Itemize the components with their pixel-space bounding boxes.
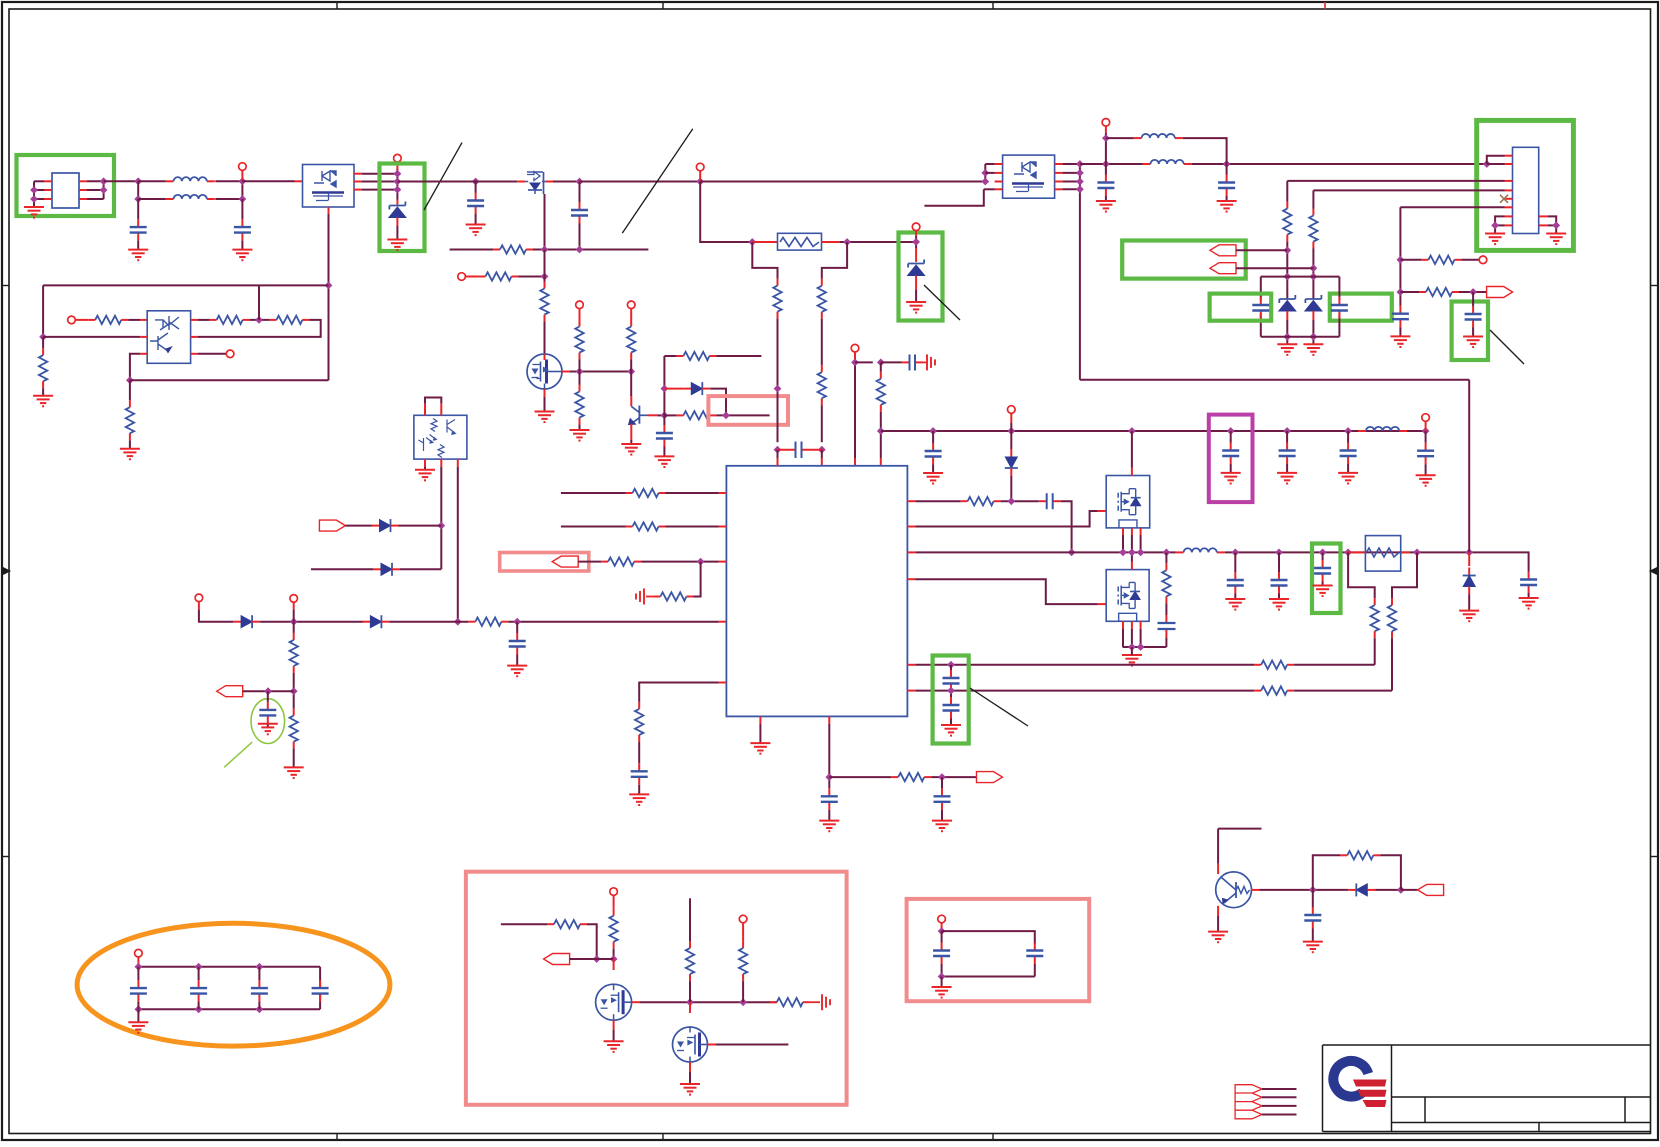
lead [1286,311,1288,320]
resistor R3 [269,316,309,324]
junction [135,963,143,971]
junction [722,412,730,420]
transistor Q10 (MOSFET) [673,1027,708,1062]
wire [1230,431,1232,443]
highlight box (pink) cap pair [907,899,1090,1001]
wire [1262,1114,1297,1116]
lead [545,181,553,183]
lead [759,716,761,724]
wire [915,690,1254,692]
resistor R7 [575,320,583,360]
wire [1287,180,1504,182]
capacitor C28 [1252,297,1269,319]
wire [1487,156,1505,164]
junction [851,359,859,367]
junction [1076,185,1084,193]
power pin [1008,406,1016,414]
capacitor C37 [1026,943,1043,965]
wire [663,447,665,457]
capacitor C36 [933,943,950,965]
wire [1548,216,1557,233]
junction [195,1005,203,1013]
wire [544,194,546,250]
border tick top [662,2,664,9]
lead [1105,126,1107,133]
wire [87,180,104,182]
wire [1034,964,1036,977]
lead [1123,621,1141,629]
capacitor C17 [934,788,951,810]
wire [664,414,676,416]
ground [387,240,407,251]
wire [1528,593,1530,598]
lead [630,308,632,319]
border tick right [1651,856,1659,858]
lead [646,596,653,598]
junction [593,955,601,963]
wire [260,621,363,623]
capacitor C14 [259,702,276,724]
power pin [576,301,584,309]
wire [855,361,873,363]
resistor R33 [1254,661,1294,669]
wire [663,356,665,426]
junction [134,195,142,203]
resistor R15 [773,279,781,319]
inductor L2 [166,195,215,199]
wire [854,360,856,458]
ground [284,767,304,778]
wire [1217,829,1219,864]
lead [191,353,198,355]
wire [396,196,398,200]
zener diode D11 [1305,295,1322,311]
lead [293,602,295,610]
highlight box (green) regulator [1477,120,1574,250]
power pin [135,949,143,957]
resistor R30 (boxed) [1365,536,1400,572]
junction [1310,333,1318,341]
wire [700,182,752,243]
lead [719,492,727,494]
lead [465,276,478,278]
junction [938,927,946,935]
capacitor C27 [1218,175,1235,197]
lead [907,500,915,502]
wire [1425,431,1427,443]
callout line [924,285,960,320]
wire [198,320,321,337]
wire [1400,206,1504,208]
ground [750,743,770,754]
border arrow left [2,567,10,575]
highlight box (green) zener 2 [899,233,943,321]
capacitor C13 [509,633,526,655]
junction [256,963,264,971]
ground [1122,655,1142,666]
wire [1261,276,1340,278]
wire [128,319,140,321]
lead [752,241,777,243]
junction [1137,549,1145,557]
wire [560,492,562,494]
wire [700,181,985,183]
junction [843,238,851,246]
highlight ellipse (orange) [77,923,390,1046]
ground [1277,473,1297,484]
wire [1225,552,1529,571]
resistor R34 [1254,686,1294,694]
junction [239,195,247,203]
diode D7 [233,615,260,628]
wire [1192,163,1487,165]
lead [396,162,398,170]
wire [742,981,744,1002]
resistor R41 [770,998,810,1006]
wire [130,354,140,380]
wire [293,749,295,768]
highlight box (magenta) [1209,415,1253,503]
border tick top (red) [1324,2,1326,9]
wire [1472,292,1474,306]
wire [1312,890,1314,907]
ground [604,1041,624,1052]
highlight box (green) zener [380,164,425,252]
junction [576,178,584,186]
junction [1319,549,1327,557]
junction [661,412,669,420]
signal pin [1479,256,1487,264]
junction [696,178,704,186]
wire [821,405,823,442]
wire [138,180,165,182]
wire [613,949,615,959]
resistor R24 [601,557,641,565]
junction [1344,427,1352,435]
wire [1165,552,1167,563]
capacitor C30 [1392,306,1409,328]
wire [689,981,691,1002]
junction [30,195,38,203]
capacitor C19 [1158,615,1176,638]
lead [907,551,915,553]
border arrow right [1650,567,1658,575]
wire [1294,690,1392,692]
ground [128,1022,148,1033]
wire [137,1002,139,1010]
lead [191,336,198,338]
wire [1261,336,1340,338]
wire [138,966,320,968]
lead [140,336,147,338]
junction [1309,886,1317,894]
transistor Q8 (P-FET module) [1003,155,1055,198]
capacitor C8 [925,443,942,465]
lead [907,664,915,666]
ground [570,430,590,441]
wire [424,467,426,470]
wire [1234,552,1236,572]
wire [1313,855,1341,890]
wire [516,622,518,633]
junction [1007,427,1015,435]
wire [43,284,328,286]
net connector [319,520,345,531]
ground [466,225,486,236]
wire [942,931,1035,944]
junction [1119,549,1127,557]
wire [579,224,581,250]
resistor R22 [626,489,666,497]
capacitor C31 [1465,306,1482,328]
wire [104,180,139,182]
power pin [1422,414,1430,422]
wire [1230,464,1232,473]
junction [912,238,920,246]
wire [1391,638,1393,690]
capacitor C1 [130,219,147,241]
resistor R23 [626,522,666,530]
wire [1260,313,1262,336]
wire [501,923,547,925]
net connector [977,772,1003,783]
diode D6 [373,563,400,576]
lead [632,1001,640,1003]
wire [1286,464,1288,473]
diode D4 [1005,449,1018,476]
lead [915,248,917,262]
capacitor C20 [1227,572,1244,594]
junction [1469,288,1477,296]
zener diode D1 [389,202,406,218]
wire [345,525,371,527]
wire [689,1072,691,1084]
junction [135,1005,143,1013]
junction [1283,427,1291,435]
wire [87,189,104,191]
wire [516,655,518,666]
wire [915,551,1175,553]
wire [1380,855,1401,890]
junction [748,238,756,246]
lead [137,957,139,967]
capacitor C5 [656,425,673,447]
wire [657,414,664,416]
resistor R14 (fusible/boxed) [778,233,822,250]
wire [638,742,640,763]
wire [1001,500,1039,502]
power pin [851,344,859,352]
highlight box (green) cap [1312,544,1341,614]
lead [907,690,915,692]
IC U3 (main controller) [726,466,907,717]
wire [1286,242,1288,299]
wire [293,622,295,633]
power pin [610,888,618,896]
transistor Q3 (MOSFET) [527,354,562,389]
ground [33,396,53,407]
wire [468,181,518,183]
capacitor C22 [1314,560,1331,582]
ground [1217,201,1237,212]
wire [689,898,691,941]
wire [396,226,398,240]
inductor L5 [1143,160,1192,164]
wire [984,164,986,182]
ground [535,412,555,423]
junction [739,998,747,1006]
wire [34,198,44,200]
junction [877,359,885,367]
junction [576,246,584,254]
capacitor C12 [1417,443,1434,465]
wire [1278,594,1280,600]
wire [553,181,580,183]
junction [1007,497,1015,505]
diode D5 [372,519,399,532]
wire [1425,464,1427,475]
lead [915,276,917,291]
junction [134,177,142,185]
wire [580,181,701,183]
callout line [1490,330,1524,364]
wire [1338,313,1340,336]
lead [854,352,856,360]
transistor Q1 (P-FET module) [303,165,355,208]
no-connect [1500,195,1508,203]
wire [243,690,294,692]
junction [1552,222,1560,230]
lead [1505,189,1513,191]
lead [689,1062,691,1072]
wire [250,319,270,321]
wire [362,181,397,183]
lead [1217,864,1219,874]
wire [690,562,701,597]
wire [1338,277,1340,300]
lead [1131,468,1133,476]
capacitor C3 [467,193,484,215]
power pin [739,915,747,923]
wire [630,372,632,397]
junction [576,368,584,376]
wire [578,561,601,563]
power pin [195,594,203,602]
wire [198,353,227,355]
junction [1465,549,1473,557]
resistor R2 [210,316,250,324]
junction [1397,886,1405,894]
lead [1312,311,1314,320]
junction [195,963,203,971]
resistor R10 [676,352,716,360]
junction [818,446,826,454]
connector J1 [52,173,79,208]
lead [1217,906,1219,916]
lead [1010,413,1012,423]
resistor R29 [1162,563,1170,603]
wire [1487,163,1505,165]
wire [1063,172,1080,174]
wire [137,181,139,199]
junction [1128,643,1136,651]
junction [774,446,782,454]
border tick top [992,2,994,9]
wire [1312,929,1314,942]
junction [1275,549,1283,557]
wire [777,450,779,458]
ground [941,725,961,736]
resistor R6 [540,282,548,322]
resistor R13 [126,400,134,440]
wire [666,526,719,528]
resistor R38 [1419,288,1459,296]
net connector [1210,263,1236,274]
wire [941,964,943,977]
net connector [1487,287,1513,298]
diode D9 [1463,568,1476,595]
power pin [627,301,635,309]
wire [710,389,726,416]
wire [1063,163,1080,165]
junction [1422,427,1430,435]
wire [1217,916,1219,932]
wire [399,525,442,527]
wire [570,371,631,373]
highlight box (pink) bias circuit [466,872,847,1105]
wire [942,976,1035,978]
ground [1459,611,1479,622]
ground [680,1084,700,1095]
junction [100,186,108,194]
wire [666,492,719,494]
junction [1283,333,1291,341]
junction [661,385,669,393]
junction [1310,273,1318,281]
callout line [970,688,1028,726]
resistor R35 [1283,202,1291,242]
wire [915,290,917,302]
lead [1425,421,1427,431]
wire [828,810,830,821]
wire [924,189,983,205]
wire [1080,379,1469,381]
wire [475,182,477,193]
junction [30,186,38,194]
junction [1223,160,1231,168]
wire [1183,138,1227,174]
wire [664,355,676,357]
capacitor C21 [1271,572,1288,594]
junction [256,1005,264,1013]
wire [950,719,952,726]
wire [1105,196,1107,201]
inductor L6 [1134,134,1183,138]
wire [311,568,373,570]
wire [821,319,823,365]
resistor R20 [290,633,298,673]
wire [1468,380,1470,553]
junction [1076,178,1084,186]
wire [579,372,581,385]
wire [137,241,139,250]
capacitor C34 [251,980,268,1002]
transistor Q2 (pass FET) [525,172,545,195]
ground [932,987,952,998]
junction [1397,256,1405,264]
junction [1227,427,1235,435]
wire [103,181,105,199]
